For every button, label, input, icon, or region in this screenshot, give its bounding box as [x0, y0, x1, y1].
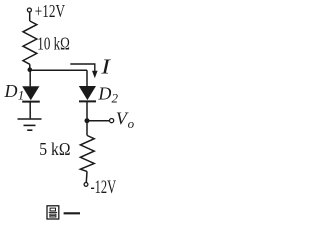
wire — [86, 102, 88, 136]
svg-text:2: 2 — [112, 90, 119, 105]
svg-text:o: o — [128, 116, 135, 131]
svg-text:-12V: -12V — [91, 177, 117, 198]
wire — [87, 120, 109, 122]
svg-text:5 kΩ: 5 kΩ — [39, 139, 70, 159]
wire — [29, 12, 31, 21]
wire — [30, 69, 87, 71]
ground — [18, 119, 42, 130]
svg-text:10 kΩ: 10 kΩ — [37, 34, 70, 54]
node B junction dot — [85, 118, 90, 123]
caption figure-one glyph — [47, 206, 59, 219]
wire — [29, 64, 31, 70]
svg-text:1: 1 — [18, 87, 25, 102]
caption dash (yi) — [64, 212, 80, 214]
terminal +12V — [27, 8, 31, 12]
svg-text:I: I — [100, 56, 111, 79]
diode D1 — [22, 86, 40, 101]
current arrow I — [70, 64, 97, 78]
wire — [29, 70, 31, 86]
terminal -12V circle — [84, 183, 88, 187]
diode D2 — [79, 86, 96, 101]
svg-text:D: D — [4, 81, 18, 101]
wire — [29, 102, 31, 118]
resistor R2 5k — [80, 136, 94, 172]
terminal Vo circle — [110, 119, 114, 123]
wire — [85, 171, 88, 182]
svg-text:+12V: +12V — [35, 1, 65, 21]
resistor R1 10k — [23, 21, 37, 64]
wire — [86, 70, 88, 86]
node A junction dot — [28, 67, 33, 72]
svg-text:D: D — [97, 83, 111, 103]
